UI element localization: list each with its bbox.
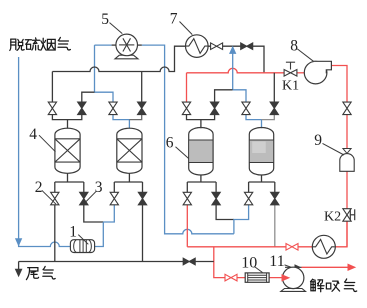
wire: vessel D bottom to its pair of bottom valves	[249, 175, 275, 192]
svg-text:K2: K2	[324, 210, 341, 225]
wire: vessel-C top open valve column (red) from header	[186, 73, 188, 102]
valve open above vessel A (top row)	[48, 102, 56, 108]
wire: below top valves into vessel A	[52, 115, 81, 129]
valve open below vessel C	[183, 192, 191, 198]
valve filled above vessel D	[270, 102, 278, 108]
svg-text:2: 2	[35, 179, 43, 196]
wire: vessel B bottom to its pair of bottom valves	[114, 173, 142, 192]
pump 11 inlet arrow (red)	[282, 275, 289, 281]
wire: below top valves into vessel C	[187, 115, 215, 129]
wire: vessel-C filled valve to black manifold y219.5	[216, 205, 234, 220]
valve open red before stripper cooler	[225, 274, 231, 281]
wire: vessel-D right filled valve column from red header	[273, 73, 275, 102]
wire: vessel-C open valve down (red) to bottom red header, blue manifold arcs over	[186, 205, 188, 247]
wire: pump 1 discharge riser x103.3	[95, 222, 104, 247]
svg-text:4: 4	[29, 126, 37, 143]
valve open below vessel B	[110, 192, 118, 198]
wire: split black branch to filled valve above vessel A	[82, 92, 95, 102]
fan 5 (blower) circle with 6-spoke impeller and base	[112, 44, 116, 46]
svg-text:11: 11	[269, 253, 284, 270]
valve filled on HX7 bypass line	[241, 43, 247, 50]
wire: tail gas outlet drop with arrow	[18, 262, 20, 270]
wire: vessel-D filled valve down (grey) to bottom red header	[274, 205, 276, 247]
pump 1 (roots blower) capsule with rotor lines	[70, 240, 94, 253]
wire: red header y72.8 from vessel-C column to K1 valve, arc over blue riser x232.7	[187, 68, 285, 73]
svg-text:3: 3	[95, 179, 103, 196]
svg-text:7: 7	[170, 11, 178, 28]
svg-text:5: 5	[101, 11, 109, 28]
adsorber vessel 4b (X-packed)	[117, 128, 142, 173]
valve 2 open below vessel A	[51, 192, 59, 198]
wire: right red riser from blower 8 down through valve, KO pot 9, K2 to HX	[331, 66, 347, 247]
adsorber vessel 6b (grey packed, lighter patch)	[249, 128, 273, 176]
wire: vessel-B open valve down to manifold y222 (blue)	[103, 205, 114, 222]
wire: vessel A bottom to its pair of bottom valves	[55, 173, 84, 192]
svg-text:10: 10	[241, 255, 257, 272]
heat exchanger (bottom) circle with zigzag	[312, 235, 335, 258]
wire: fan 5 suction line (blue, from riser x94.5)	[95, 44, 112, 46]
heat exchanger 7 circle with zigzag	[186, 35, 209, 58]
wire: vessel-B filled valve down to tail gas header	[142, 205, 144, 262]
blower 8 (centrifugal) volute symbol	[304, 61, 327, 84]
wire: desorbed gas product line with arrow (解吸气)	[285, 266, 302, 268]
wire: vessel-A open valve down to tail gas header	[54, 205, 56, 262]
valve open red before HX (bottom)	[286, 244, 292, 251]
wire: blue riser x94.5 down to split at y92.2	[94, 45, 96, 92]
valve open above vessel C	[182, 102, 190, 108]
text: 尾气 (tail gas)	[26, 268, 38, 280]
pump 11 centrifugal with tangent outlet and base	[281, 289, 306, 292]
valve 3 filled below vessel A	[80, 192, 88, 198]
valve K1 with T-stem on red header	[284, 70, 290, 77]
wire: red riser x213.8 down to stripper feed line y277.6	[214, 247, 225, 278]
wire: split blue branch to open valve above vessel B	[95, 92, 114, 102]
valve filled on tail gas header	[183, 258, 189, 265]
wire: vessel-D open valve down (blue) joining manifold y219.5 and drop to y233.8	[234, 205, 249, 234]
knock-out pot 9 (bullet vessel) with funnel inlet	[343, 149, 351, 154]
wire: fan 5 discharge to big blue downcomer x164.6 down to bottom manifold, arc over red riser	[142, 45, 234, 234]
svg-text:9: 9	[314, 132, 322, 149]
svg-text:K1: K1	[282, 78, 299, 93]
valve open on HX7 outlet	[211, 43, 217, 50]
valve filled below vessel C	[212, 192, 220, 198]
valve filled above vessel A	[78, 102, 86, 108]
valve filled below vessel D	[271, 192, 279, 198]
flow arrow down on flue gas line	[16, 239, 22, 246]
wire: right group split manifold y89.8 blue to open valve	[233, 90, 246, 102]
wire: desulfurized flue gas inlet, blue vertical then to pump 1, arcs over tail-gas drop	[19, 57, 71, 247]
svg-text:6: 6	[166, 134, 174, 151]
wire: right group split manifold y89.8 black to filled valve	[215, 90, 233, 102]
valve open below vessel D	[244, 192, 252, 198]
wire: HX7 outlet line with valves to corner x264 joining red header	[208, 46, 264, 73]
wire: below top valves into vessel D (blue left, grey right)	[246, 115, 262, 129]
wire: red from K1 to blower 8 inlet	[297, 72, 304, 74]
wire: bottom red header y246.8 from x187.3 to HX and up the right riser	[187, 220, 347, 247]
wire: below top valves into vessel B (blue left, grey right)	[113, 115, 129, 129]
wire: blue riser x232.7 with up arrow into HX7 line, crosses red header	[232, 53, 234, 90]
wire: vessel-A filled valve down to pump riser manifold y222 (black)	[84, 205, 104, 222]
valve K2 open vertical on riser	[343, 209, 351, 215]
valve filled below vessel B	[138, 192, 146, 198]
wire: vessel C bottom to its pair of bottom valves	[187, 175, 216, 192]
svg-text:8: 8	[290, 37, 298, 54]
wire: top black header y71.5 from vessel-A open valve to heat exchanger 7, arcs over blue lines	[52, 46, 185, 102]
valve open above vessel D	[242, 102, 250, 108]
wire: tail gas black header y261.5 with filled valve, joins red riser	[19, 261, 214, 263]
valve filled above vessel B	[138, 102, 146, 108]
svg-text:1: 1	[69, 223, 77, 240]
valve filled above vessel C	[210, 102, 218, 108]
adsorber vessel 6a (grey packed)	[189, 128, 213, 176]
valve open vertical on blower discharge riser	[343, 102, 351, 108]
text: 解吸气 (desorbed gas)	[311, 279, 325, 291]
cooler 10 (shell and tube) box	[245, 273, 269, 282]
wire: stripper feed line y277.6 valve to cooler 10 to pump 11	[237, 277, 282, 279]
wire: vessel-B filled valve column up to black header	[141, 72, 143, 102]
text: 脱硫烟气 (desulfurized flue gas)	[10, 39, 24, 50]
valve open above vessel B	[109, 102, 117, 108]
adsorber vessel 4a (X-packed) left	[55, 128, 80, 173]
